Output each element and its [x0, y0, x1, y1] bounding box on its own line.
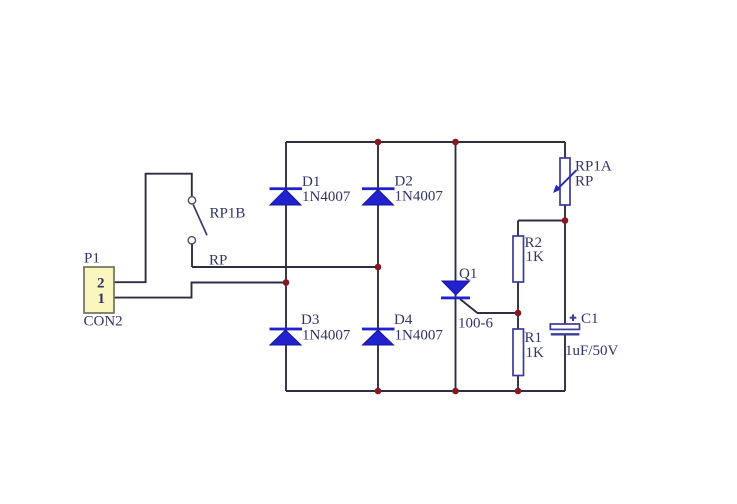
junction bottom-Q1	[452, 388, 459, 395]
junction RP-middle	[375, 264, 382, 271]
thyristor Q1	[441, 266, 493, 332]
wire Q1 branch vertical	[455, 142, 457, 391]
svg-text:1N4007: 1N4007	[302, 189, 351, 205]
junction bottom-R1	[515, 388, 522, 395]
wire middle bridge vertical	[377, 142, 379, 391]
svg-text:Q1: Q1	[459, 266, 477, 282]
diode D4	[362, 312, 443, 345]
potentiometer RP1A	[553, 158, 612, 205]
diode D2	[362, 174, 443, 206]
svg-text:RP1B: RP1B	[210, 206, 246, 222]
svg-text:RP1A: RP1A	[575, 159, 612, 175]
svg-text:1K: 1K	[526, 249, 545, 265]
junction top-middle	[375, 139, 382, 146]
diode D1	[270, 174, 351, 205]
svg-text:CON2: CON2	[84, 314, 123, 330]
svg-text:D4: D4	[394, 312, 413, 328]
wire RP node horizontal	[192, 266, 378, 268]
junction RP1A-R2	[562, 217, 569, 224]
capacitor C1	[550, 311, 618, 359]
svg-text:1uF/50V: 1uF/50V	[565, 343, 619, 359]
switch RP1B	[188, 197, 195, 204]
svg-text:R1: R1	[525, 330, 543, 346]
connector P1	[84, 267, 114, 313]
wire pin1 to bridge	[114, 283, 286, 298]
wire top bus	[286, 141, 565, 143]
wire right branch vertical	[564, 142, 566, 158]
svg-text:RP: RP	[575, 174, 593, 190]
svg-text:1N4007: 1N4007	[395, 189, 444, 205]
svg-text:D2: D2	[395, 174, 413, 190]
resistor R1	[513, 329, 544, 376]
wire switch lower contact to RP	[191, 244, 193, 267]
junction top-Q1	[452, 139, 459, 146]
svg-text:C1: C1	[581, 311, 599, 327]
junction pin1-bridge	[283, 279, 290, 286]
svg-text:D3: D3	[301, 312, 319, 328]
svg-text:2: 2	[97, 276, 105, 292]
wire pin2 to switch top	[114, 174, 192, 283]
svg-text:1: 1	[98, 291, 106, 307]
junction gate-R1R2	[515, 310, 522, 317]
junction bottom-middle	[375, 388, 382, 395]
wire RP1A to R2 horizontal	[518, 220, 565, 222]
wire Q1 gate	[460, 299, 518, 313]
svg-text:P1: P1	[84, 251, 100, 267]
svg-text:RP: RP	[209, 253, 227, 269]
svg-text:1K: 1K	[526, 345, 545, 361]
diode D3	[270, 312, 351, 345]
wire left bridge vertical	[285, 142, 287, 391]
wire bottom bus	[286, 390, 565, 392]
svg-text:1N4007: 1N4007	[395, 328, 444, 344]
svg-text:1N4007: 1N4007	[302, 328, 351, 344]
resistor R2	[513, 235, 544, 282]
svg-text:100-6: 100-6	[458, 316, 493, 332]
wire R2 branch vertical	[517, 221, 519, 237]
svg-text:D1: D1	[302, 174, 320, 190]
